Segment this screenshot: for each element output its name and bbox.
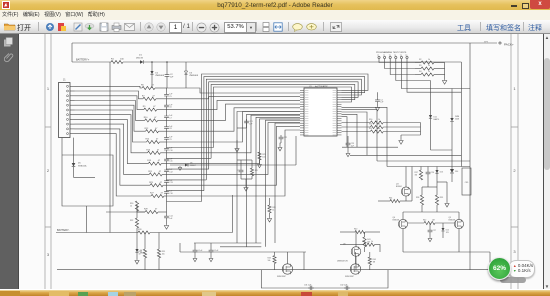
wire — [430, 119, 432, 151]
wire cell 7 to U1 — [167, 115, 301, 153]
wire cell tap 6 — [75, 110, 147, 142]
svg-text:1uF: 1uF — [169, 218, 173, 220]
ground — [445, 202, 449, 207]
svg-text:1: 1 — [513, 86, 516, 91]
resistor R41 — [363, 237, 366, 247]
resistor R1 — [111, 60, 123, 63]
svg-text:BSS138: BSS138 — [393, 220, 400, 222]
wire — [402, 229, 404, 252]
svg-text:T2: T2 — [383, 55, 385, 57]
U1 pin row 9 — [300, 108, 342, 110]
connector J1 pin 4 — [70, 100, 75, 102]
svg-text:R7: R7 — [142, 95, 145, 97]
wire — [369, 265, 371, 270]
wire — [166, 196, 168, 214]
wire — [210, 254, 212, 257]
wire cell tap 11 — [75, 134, 152, 196]
wire mid rail left — [180, 251, 306, 253]
resistor R30 — [135, 201, 138, 211]
wire — [167, 179, 207, 181]
resistor R40 — [355, 230, 365, 233]
wire — [355, 256, 357, 269]
wire cell tap 8 — [75, 119, 149, 163]
wire — [350, 154, 461, 156]
svg-text:R4: R4 — [419, 71, 421, 73]
wire — [402, 212, 404, 219]
ground — [267, 217, 271, 222]
ground — [428, 237, 432, 242]
wire — [408, 222, 424, 224]
wire — [157, 109, 167, 111]
svg-text:DMBLT: DMBLT — [190, 165, 197, 167]
svg-text:C13: C13 — [169, 182, 172, 184]
wire — [422, 186, 437, 188]
svg-text:BATTERY+: BATTERY+ — [76, 58, 90, 62]
wire — [436, 174, 438, 188]
connector J1 pin 9 — [70, 123, 75, 125]
svg-text:1uF: 1uF — [170, 77, 174, 79]
svg-text:C31 1uF: C31 1uF — [304, 284, 312, 286]
wire wrap bus 3 — [206, 79, 361, 180]
svg-text:BATTERY-: BATTERY- — [57, 228, 69, 232]
capacitor C14 — [164, 214, 169, 220]
expand icon — [330, 22, 342, 32]
wire — [451, 122, 453, 167]
resistor R27 — [151, 194, 164, 197]
wire — [274, 252, 276, 256]
wire — [446, 182, 448, 202]
wire cell tap 9 — [75, 124, 150, 174]
svg-text:1uF: 1uF — [249, 123, 253, 125]
U1 pin row 13 — [300, 118, 342, 120]
ground — [346, 152, 350, 157]
wire — [159, 130, 167, 132]
resistor R16 — [147, 151, 160, 154]
wire — [435, 222, 454, 224]
U1 pin row 12 — [300, 115, 342, 117]
accelerator ball 62% — [488, 257, 511, 280]
wire — [251, 176, 253, 179]
wire cell 3 to U1 — [167, 100, 301, 109]
svg-text:PACK+: PACK+ — [504, 42, 514, 46]
wire — [71, 43, 73, 62]
wire U1 gate drive 4 — [342, 114, 358, 147]
svg-text:D14: D14 — [455, 171, 458, 173]
wire — [451, 174, 453, 183]
sidebar attachment icon — [4, 52, 14, 63]
svg-text:T5: T5 — [400, 55, 402, 57]
wire — [86, 206, 88, 233]
svg-text:ZMM5408: ZMM5408 — [189, 75, 198, 77]
resistor R12 — [146, 130, 159, 133]
wire — [185, 62, 187, 71]
resistor R6 — [142, 86, 155, 89]
wire — [444, 63, 446, 80]
wire right rail — [469, 43, 471, 167]
wire — [434, 68, 445, 70]
diode D7 — [135, 249, 138, 252]
wire cell tap 1 — [75, 86, 143, 88]
wire — [144, 233, 146, 250]
wire — [436, 167, 438, 171]
wire wrap bus 5 — [211, 84, 355, 158]
test point TP5 — [400, 56, 402, 58]
wire cell 5 to U1 — [167, 108, 301, 131]
svg-text:5408: 5408 — [455, 118, 459, 120]
svg-text:1M: 1M — [432, 220, 435, 222]
wire — [166, 120, 168, 124]
wire cell 6 to U1 — [167, 112, 301, 143]
wire — [166, 97, 168, 100]
capacitor C27 — [428, 228, 433, 234]
resistor R51 — [370, 125, 383, 128]
wire — [166, 162, 168, 165]
window title — [0, 2, 550, 9]
svg-text:DNC#B: DNC#B — [136, 57, 143, 59]
wire TP6 — [407, 59, 461, 93]
wire TP5 — [401, 59, 452, 89]
wire — [161, 163, 166, 165]
wire — [123, 61, 140, 63]
wire — [166, 131, 168, 135]
U1 pin row 4 — [300, 96, 342, 98]
ground — [258, 163, 262, 168]
wire — [400, 200, 412, 202]
resistor R33 sense — [138, 231, 150, 234]
svg-text:D5: D5 — [78, 163, 82, 165]
wire — [166, 184, 168, 187]
wire — [452, 88, 470, 90]
resistor R23 — [150, 184, 163, 187]
wire TP2 — [385, 59, 415, 69]
wire — [158, 258, 160, 270]
resistor R3 — [421, 67, 434, 70]
wire — [405, 196, 407, 201]
svg-text:3: 3 — [47, 252, 50, 257]
svg-text:BSS84: BSS84 — [396, 186, 402, 188]
wire — [237, 127, 247, 129]
wire — [430, 81, 432, 116]
wire cell 11 to U1 — [167, 130, 301, 196]
wire — [451, 167, 453, 170]
maximize button — [522, 3, 529, 9]
wire — [166, 164, 168, 168]
capacitor C2 — [165, 73, 170, 79]
wire bottom box — [261, 270, 388, 288]
ground — [244, 186, 248, 191]
U1 pin row 17 — [300, 127, 342, 129]
svg-text:R32: R32 — [130, 220, 133, 222]
wire right rail lower — [469, 167, 471, 270]
comment bubble icon — [292, 23, 303, 32]
U1 pin row 5 — [300, 99, 342, 101]
wire U1 gate drive 5 — [342, 117, 348, 148]
svg-text:R38: R38 — [416, 197, 419, 199]
wire — [369, 252, 371, 257]
test point TP6 — [406, 56, 408, 58]
transistor Q3 — [401, 187, 410, 196]
wire U1 sense 5 — [275, 123, 300, 243]
wire — [269, 213, 271, 217]
fit width icon — [273, 22, 283, 32]
resistor R52 — [370, 130, 383, 133]
wire cell tap 5 — [75, 105, 146, 131]
wire — [436, 187, 438, 195]
svg-text:C16: C16 — [169, 193, 172, 195]
resistor R29 — [145, 210, 158, 213]
fill&sign label — [486, 23, 521, 33]
connector J1 — [59, 83, 71, 138]
svg-text:R39: R39 — [440, 197, 443, 199]
wire wrap bus 6 — [214, 87, 352, 148]
svg-text:PROGRAMMING TEST POINTS: PROGRAMMING TEST POINTS — [376, 51, 407, 54]
wire TP1 — [379, 59, 415, 63]
svg-text:BSS138: BSS138 — [449, 220, 456, 222]
wire — [155, 87, 167, 89]
capacitor C22 — [279, 135, 284, 141]
capacitor C30 — [209, 248, 214, 254]
capacitor C23 — [346, 141, 351, 147]
toolbar icon: export pdf — [57, 22, 67, 32]
page number box — [169, 22, 182, 33]
svg-text:1: 1 — [47, 86, 50, 91]
svg-text:D1: D1 — [139, 55, 143, 57]
wire — [274, 264, 276, 270]
ground — [135, 259, 139, 264]
wire cell tap 3 — [75, 96, 144, 110]
U1 pin row 18 — [300, 129, 342, 131]
svg-text:SIR426DP: SIR426DP — [277, 276, 287, 278]
wire TP4 — [396, 59, 431, 81]
toolbar icon: save — [99, 22, 109, 32]
wire — [73, 167, 75, 177]
svg-text:1k: 1k — [428, 59, 430, 61]
sheet frame left column — [45, 34, 51, 289]
U1 pin row 14 — [300, 120, 342, 122]
wire FET rail — [387, 166, 470, 168]
wire — [210, 243, 212, 248]
junction — [166, 61, 168, 63]
test point PACK+ — [499, 42, 501, 44]
resistor R2 — [421, 61, 434, 64]
nav down arrow — [156, 22, 166, 32]
wire — [403, 211, 459, 213]
svg-text:C22: C22 — [284, 137, 287, 139]
svg-text:D13: D13 — [440, 172, 443, 174]
resistor R34 — [143, 249, 146, 258]
wire cell tap 2 — [75, 91, 143, 99]
wire — [280, 143, 281, 146]
wire — [240, 160, 242, 168]
resistor R42 — [424, 221, 435, 224]
resistor R50 — [370, 121, 383, 124]
wire — [137, 211, 145, 213]
wire U1 sense 1 — [237, 112, 300, 244]
wire — [375, 245, 381, 252]
wire — [232, 195, 234, 233]
wire D5 box — [62, 155, 113, 206]
speed monitor pill — [508, 260, 535, 278]
test point TP3 — [389, 56, 391, 58]
wire — [458, 212, 460, 219]
resistor R35 — [157, 249, 160, 258]
transistor Q2 — [350, 264, 360, 274]
connector J1 pin 2 — [70, 90, 75, 92]
resistor R28 — [268, 205, 271, 213]
wire — [377, 160, 470, 162]
svg-text:C10: C10 — [169, 150, 172, 152]
wire — [415, 62, 421, 64]
wire sense line — [109, 62, 111, 233]
wire cell tap 4 — [75, 101, 145, 121]
comment label — [528, 23, 542, 33]
zoom out button — [196, 22, 207, 33]
wire — [136, 211, 138, 218]
diode D15 — [442, 228, 445, 231]
resistor R39 — [435, 195, 438, 205]
wire — [194, 243, 196, 248]
wire — [166, 79, 168, 89]
regulator U2 — [462, 168, 471, 195]
wire — [236, 140, 238, 147]
toolbar icon: adobe send — [45, 22, 55, 32]
wire cell tap 7 — [75, 115, 148, 153]
U1 pin row 7 — [300, 103, 342, 105]
wire — [166, 119, 168, 122]
wire — [158, 211, 167, 213]
wire — [156, 98, 167, 100]
svg-text:CSD: CSD — [465, 182, 469, 184]
wire — [158, 119, 167, 121]
U1 pin row 6 — [300, 101, 342, 103]
svg-text:R9: R9 — [143, 106, 146, 108]
wire BATTERY+ to right — [144, 61, 461, 63]
toolbar icon: sign — [73, 22, 83, 32]
transistor Q4 — [398, 219, 407, 228]
svg-text:C6: C6 — [169, 107, 171, 109]
wire wrap bus 2 — [204, 77, 365, 191]
wire cell tap 10 — [75, 129, 151, 185]
app icon — [2, 1, 10, 9]
wire — [166, 173, 168, 176]
svg-text:C?: C? — [237, 170, 239, 172]
U1 pin row 2 — [300, 92, 342, 94]
connector J1 pin 5 — [70, 104, 75, 106]
wire cell tap 12 — [106, 211, 145, 213]
wire — [136, 205, 138, 212]
wire — [167, 168, 209, 170]
svg-text:10V: 10V — [446, 232, 450, 234]
wire — [355, 232, 357, 247]
wire — [383, 126, 420, 128]
resistor R36 — [364, 243, 375, 246]
ground — [376, 106, 380, 111]
svg-text:R52: R52 — [369, 128, 372, 130]
wire — [342, 122, 371, 124]
diode D13 — [435, 170, 438, 173]
connector J1 pin 8 — [70, 118, 75, 120]
sidebar — [0, 34, 19, 289]
wire rail — [220, 246, 261, 248]
diode D10 — [450, 118, 453, 121]
wire — [342, 131, 371, 133]
resistor R44 — [390, 199, 400, 202]
wire — [166, 194, 168, 197]
svg-text:2: 2 — [513, 168, 516, 173]
title bar — [0, 0, 550, 10]
wire — [377, 104, 379, 106]
wire — [411, 167, 413, 202]
svg-text:C8: C8 — [169, 128, 171, 130]
scrollbar thumb — [544, 58, 550, 170]
wire — [287, 252, 289, 264]
wire — [378, 200, 390, 202]
svg-text:3: 3 — [513, 249, 516, 254]
svg-text:ZMM5408: ZMM5408 — [155, 75, 164, 77]
scrollbar down arrow — [544, 284, 550, 290]
test point TP4 — [395, 56, 397, 58]
connector J1 pin 7 — [70, 114, 75, 116]
wire — [364, 232, 366, 237]
resistor R4 — [421, 73, 434, 76]
capacitor C29 — [193, 248, 198, 254]
wire U1 gate drive 1 — [342, 107, 388, 166]
U1 pin row 1 — [300, 89, 342, 91]
transistor Q5 — [454, 219, 463, 228]
svg-text:1k: 1k — [378, 124, 380, 126]
resistor R21 — [149, 173, 162, 176]
svg-text:100: 100 — [262, 156, 265, 158]
toolbar icon: print — [111, 22, 122, 32]
wire — [421, 205, 423, 212]
wire — [429, 223, 431, 228]
wire — [303, 252, 305, 270]
U1 pin row 20 — [300, 134, 342, 136]
tools label — [457, 23, 471, 33]
minimize button — [511, 5, 517, 7]
svg-text:C5: C5 — [169, 96, 171, 98]
resistor R7 — [143, 97, 156, 100]
wire — [427, 176, 429, 187]
wire — [364, 247, 366, 252]
ground — [164, 224, 168, 229]
wire — [431, 149, 453, 151]
svg-text:C11: C11 — [169, 161, 172, 163]
U1 pin row 10 — [300, 110, 342, 112]
capacitor C24 — [239, 168, 244, 174]
svg-text:R33: R33 — [138, 229, 141, 231]
U1 pin row 16 — [300, 125, 342, 127]
connector J1 pin 11 — [70, 133, 75, 135]
wire U1 sense 3 — [256, 117, 300, 243]
wire — [163, 184, 166, 186]
ground — [193, 257, 197, 262]
wire — [489, 252, 491, 270]
svg-text:10k: 10k — [268, 260, 271, 262]
wire — [280, 141, 282, 143]
wire — [160, 141, 167, 143]
svg-text:T4: T4 — [394, 55, 396, 57]
U1 pin row 15 — [300, 122, 342, 124]
wire — [400, 135, 402, 139]
capacitor C8 — [164, 125, 169, 131]
taskbar icons — [0, 291, 20, 296]
sheet frame right column — [511, 34, 518, 289]
wire main bottom rail — [57, 269, 490, 271]
capacitor C4 — [375, 98, 380, 104]
op-amp U1 bq77910A — [304, 88, 337, 136]
wire — [151, 75, 153, 89]
